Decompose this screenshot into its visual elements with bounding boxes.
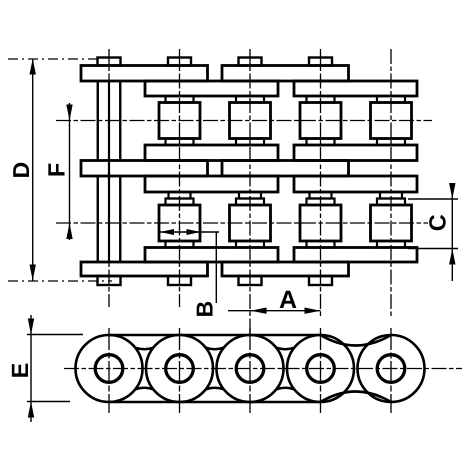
svg-text:B: B [191, 301, 217, 318]
svg-text:F: F [43, 163, 69, 177]
svg-text:A: A [279, 286, 297, 314]
svg-text:D: D [8, 162, 34, 179]
svg-text:E: E [7, 363, 33, 379]
svg-text:C: C [425, 214, 451, 231]
